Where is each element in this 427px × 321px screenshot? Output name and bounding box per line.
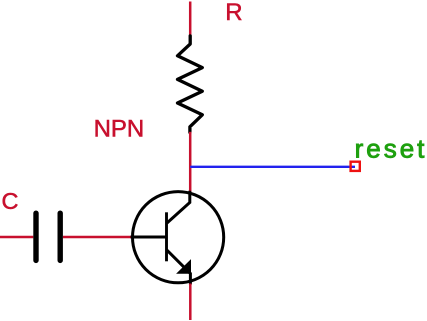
transistor Q1 emitter arrow <box>177 260 190 273</box>
transistor Q1 collector lead <box>167 191 190 223</box>
wire: emitter to bottom <box>189 284 192 321</box>
resistor R1 <box>178 36 203 132</box>
wire: left lead of capacitor <box>0 236 33 239</box>
transistor Q1 emitter lead <box>167 250 191 285</box>
svg-text:reset: reset <box>355 134 427 164</box>
svg-text:NPN: NPN <box>94 116 145 143</box>
svg-text:C: C <box>2 188 19 214</box>
svg-text:R: R <box>225 0 242 26</box>
transistor Q1 circle <box>133 192 224 283</box>
transistor Q1 base lead <box>131 236 167 239</box>
capacitor C plate 2 <box>58 213 63 260</box>
wire: blue reset net <box>190 166 355 168</box>
wire: capacitor to transistor base <box>63 236 132 239</box>
transistor Q1 base bar <box>165 212 168 261</box>
wire: resistor to collector node <box>189 132 192 192</box>
wire: top supply wire to resistor <box>189 2 192 37</box>
capacitor C plate 1 <box>33 213 38 260</box>
terminal: reset pin square <box>351 162 360 171</box>
